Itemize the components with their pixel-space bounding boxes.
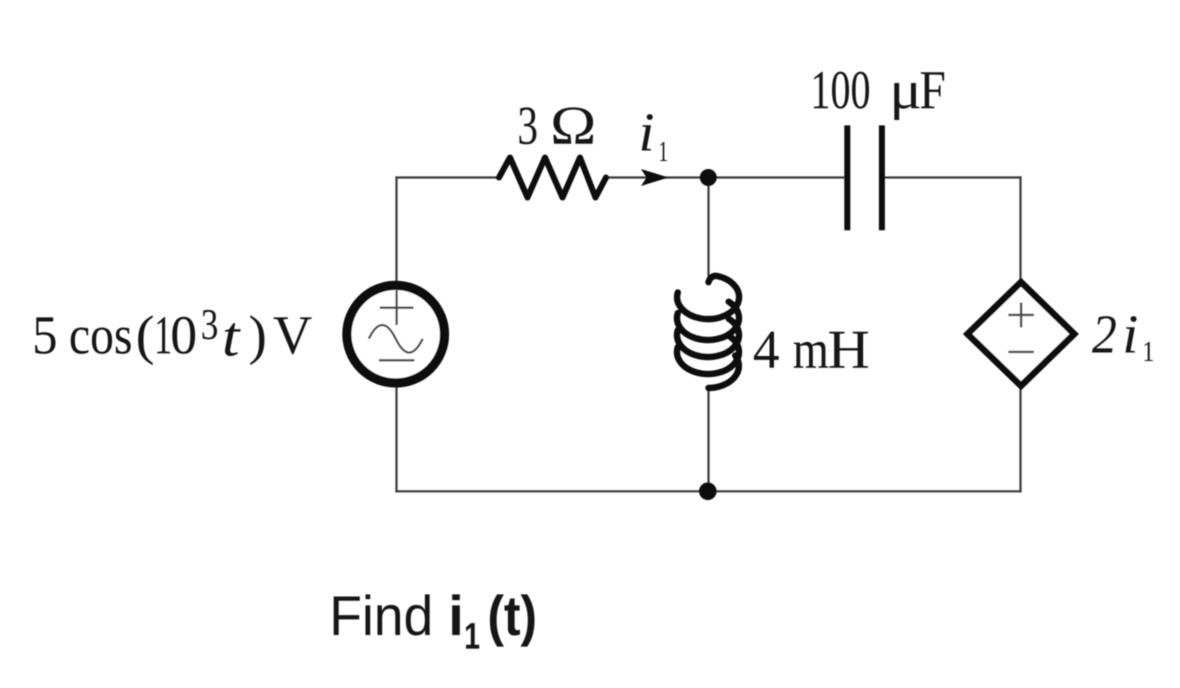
inductor 4mH coil [677, 276, 739, 388]
label 4 (inductor value) [754, 332, 779, 368]
node dot: bottom junction [699, 483, 717, 501]
wire: bottom rail [395, 490, 1021, 492]
wire: center vertical, inductor to bottom node [707, 385, 709, 491]
resistor 3-ohm zigzag [499, 158, 606, 198]
AC voltage source circle [347, 285, 445, 383]
label i (of 2i1) [1126, 316, 1137, 352]
label close paren [250, 315, 264, 365]
label V (volts) [274, 317, 312, 354]
caption 1 (bold subscript) [466, 623, 479, 649]
caption Find [334, 594, 430, 635]
caption (t) (bold) [490, 594, 535, 646]
label mu (micro) [894, 83, 919, 120]
label superscript 3 [203, 310, 218, 340]
diamond: dependent source 2i1 [968, 282, 1075, 386]
wire: right vertical, bottom segment (diamond bottom to bottom rail) [1019, 385, 1021, 493]
dependent source plus sign [1008, 303, 1034, 328]
wire: center vertical, top node to inductor [707, 185, 709, 283]
label 1 (of 10^3) [157, 317, 170, 353]
node dot: top junction [700, 169, 717, 186]
wire: top rail, resistor to top node [606, 176, 709, 178]
caption i (bold) [452, 594, 460, 635]
label F (farad) [921, 72, 944, 108]
wire: top rail, capacitor right plate to top-right corner [885, 176, 1022, 178]
AC source minus sign [379, 359, 415, 361]
capacitor 100uF left plate [844, 125, 850, 230]
wire: left vertical, bottom segment (source bottom to bottom rail) [395, 383, 397, 493]
label 0 (of 10^3) [172, 317, 195, 354]
label Omega (ohms unit) [553, 107, 593, 143]
capacitor 100uF right plate [879, 125, 885, 230]
dependent source minus sign [1008, 351, 1034, 353]
wire: right vertical, top segment (corner to diamond top) [1019, 176, 1021, 283]
label 1 (subscript of i1) [660, 142, 667, 161]
AC source plus sign [380, 290, 414, 325]
label i (current i1) [642, 114, 653, 150]
label 3 (ohms value) [519, 107, 536, 144]
label H (henry) [829, 332, 868, 368]
label 5 (source amplitude) [35, 317, 55, 354]
label open paren [138, 315, 153, 365]
wire: top rail, left of resistor [395, 176, 500, 178]
label 1 (subscript of 2i1) [1145, 342, 1153, 361]
label t (time variable) [225, 323, 241, 356]
label m (milli) [794, 342, 829, 368]
label 2 (gain of dep source) [1092, 316, 1116, 352]
arrowhead for current i1 [641, 169, 669, 186]
label 100 (capacitor value) [814, 72, 869, 109]
wire: left vertical, top segment (source top to top rail) [395, 176, 397, 285]
wire: top rail, top node to capacitor left plate [708, 176, 844, 178]
label cos [71, 328, 131, 354]
AC source sine wave [369, 325, 423, 353]
